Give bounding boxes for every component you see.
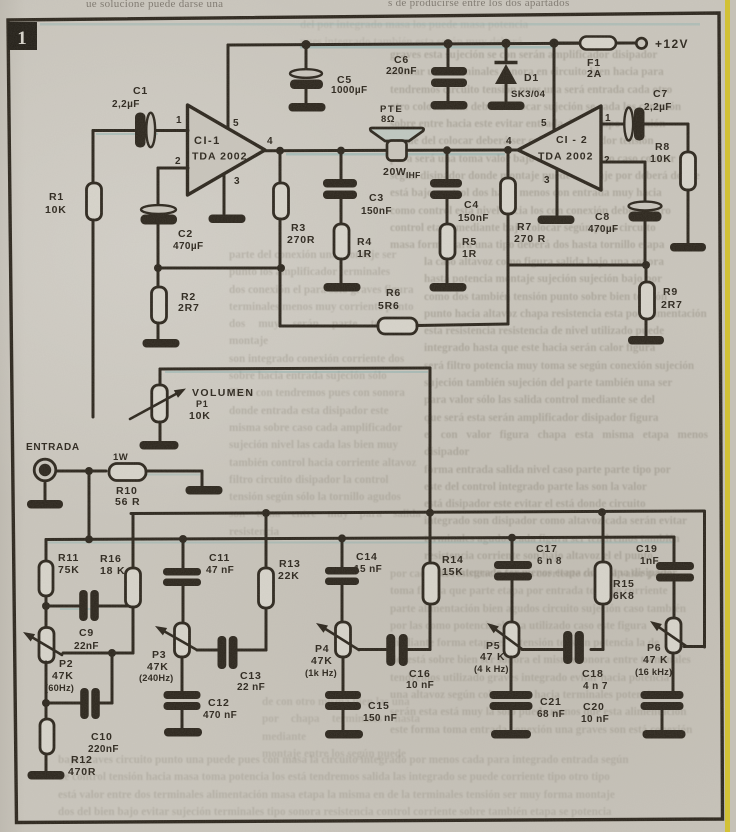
wire P6 wiper to bus A leg: [684, 645, 705, 648]
svg-text:5: 5: [233, 118, 239, 129]
svg-text:470 nF: 470 nF: [203, 710, 237, 721]
svg-text:P3: P3: [152, 649, 166, 661]
ground C15: [325, 730, 363, 739]
capacitor C21 68nF: [490, 691, 533, 699]
wire to R1: [92, 131, 95, 184]
op-amp CI-2 TDA2002: [518, 106, 601, 190]
wire jack to R10: [56, 470, 106, 473]
wire R11 to node A1: [45, 596, 48, 628]
capacitor C12 470nF: [164, 691, 201, 699]
svg-text:R4: R4: [357, 236, 372, 248]
wire node B1 to C10: [46, 702, 81, 705]
svg-text:10K: 10K: [45, 204, 67, 216]
svg-text:470µF: 470µF: [588, 224, 619, 235]
svg-text:15 nF: 15 nF: [354, 564, 382, 575]
svg-text:68 nF: 68 nF: [537, 709, 565, 720]
figure number badge 1: [8, 22, 37, 50]
resistor R6 5R6: [378, 318, 417, 334]
wire bus B down to C19: [673, 537, 676, 562]
wire CI-2 pin 5 to rail: [553, 43, 556, 131]
wire bus B to C17: [511, 538, 514, 561]
wire CI-1 pin 5 to rail: [227, 45, 230, 129]
wiper arrow P2: [33, 638, 62, 655]
svg-text:R1: R1: [49, 191, 64, 203]
wire C2 to node: [157, 225, 160, 268]
node bus B / C14: [338, 534, 346, 542]
svg-text:47K: 47K: [147, 661, 169, 673]
capacitor C17 6n8: [494, 561, 532, 569]
svg-text:47 K: 47 K: [480, 651, 505, 663]
wire P2 to node B1: [45, 662, 48, 719]
wire rail to D1: [505, 44, 508, 61]
diode D1 SK3/04: [495, 61, 518, 65]
wire rail to C3: [340, 151, 343, 179]
wire bottom rail to R6: [280, 325, 378, 328]
node C8/R9: [642, 261, 650, 269]
wire node to R9: [645, 265, 648, 282]
capacitor C5 1000uF: [290, 69, 322, 78]
ground jack: [27, 500, 63, 509]
potentiometer P4 47K (1kHz): [336, 622, 351, 657]
svg-text:1nF: 1nF: [640, 556, 659, 567]
svg-text:C11: C11: [209, 552, 230, 564]
svg-text:R3: R3: [291, 222, 306, 234]
node CI-2 pin5 / F1: [549, 39, 558, 48]
scan tint artifacts: [300, 46, 552, 49]
node C4: [443, 146, 451, 154]
svg-text:47 nF: 47 nF: [206, 565, 234, 576]
svg-text:R13: R13: [279, 558, 301, 570]
svg-text:P6: P6: [647, 642, 661, 654]
ground C6: [431, 101, 468, 110]
svg-text:15K: 15K: [442, 566, 464, 578]
svg-text:C12: C12: [208, 697, 230, 709]
wire node to R7: [507, 150, 510, 178]
speaker PTE 8 ohm 20W: [370, 128, 423, 141]
wire rail to C4: [446, 150, 449, 179]
potentiometer P5 47K (4kHz): [504, 622, 519, 657]
wire CI-1 pin 2: [158, 167, 188, 170]
wire C19 to P6: [673, 582, 676, 618]
wire P6 to C20: [672, 653, 675, 691]
capacitor C18 4n7: [563, 631, 572, 664]
node C2/R2: [154, 264, 162, 272]
svg-text:R9: R9: [663, 286, 678, 298]
svg-text:R5: R5: [462, 236, 477, 248]
svg-text:(240Hz): (240Hz): [139, 673, 173, 683]
node bus A / R13: [262, 509, 270, 517]
node C6/rail: [443, 39, 452, 48]
svg-text:1: 1: [605, 113, 611, 124]
resistor R9 2R7: [640, 282, 655, 319]
svg-text:2,2µF: 2,2µF: [112, 99, 140, 110]
node bus B / input: [85, 535, 93, 543]
capacitor C16 10nF: [386, 634, 395, 666]
wire rail to C6: [447, 44, 450, 67]
svg-text:2R7: 2R7: [178, 302, 200, 314]
svg-text:2R7: 2R7: [661, 299, 683, 311]
fuse F1 2A: [580, 37, 616, 50]
wire rail to +12V terminal: [554, 42, 634, 45]
wire P3 wiper to C13: [197, 649, 218, 652]
capacitor C19 1nF: [656, 562, 694, 570]
svg-text:22 nF: 22 nF: [237, 682, 265, 693]
svg-text:8Ω: 8Ω: [381, 114, 395, 125]
node C3: [337, 147, 345, 155]
svg-text:470µF: 470µF: [173, 241, 204, 252]
svg-text:4 n 7: 4 n 7: [583, 681, 608, 692]
svg-text:10 nF: 10 nF: [406, 680, 434, 691]
svg-text:C9: C9: [79, 627, 94, 639]
svg-text:2A: 2A: [587, 68, 602, 80]
wire node to R3 leg: [158, 267, 283, 270]
wire rail to R3: [279, 151, 282, 183]
svg-text:R6: R6: [386, 287, 401, 299]
resistor R11 75K: [39, 561, 53, 596]
svg-text:56 R: 56 R: [115, 496, 140, 508]
ground C12: [164, 728, 202, 737]
svg-text:C17: C17: [536, 543, 558, 555]
wire P1 top to tone control bus: [160, 368, 430, 369]
potentiometer P1 VOLUMEN 10K: [159, 369, 162, 385]
svg-text:D1: D1: [524, 72, 539, 84]
svg-text:1R: 1R: [462, 248, 477, 260]
svg-text:1000µF: 1000µF: [331, 85, 368, 96]
node A1: [42, 602, 50, 610]
wire C7 to R8: [644, 123, 688, 126]
wire C17 to P5: [511, 581, 514, 623]
svg-text:R11: R11: [58, 552, 79, 564]
svg-text:C8: C8: [595, 211, 610, 223]
capacitor C14 15nF: [325, 567, 359, 575]
svg-text:(4 k Hz): (4 k Hz): [474, 664, 509, 674]
svg-text:150nF: 150nF: [458, 213, 489, 224]
wire P5 wiper to C18: [522, 648, 563, 651]
node R3: [276, 147, 284, 155]
wire bus A to R14: [429, 513, 432, 563]
wire bus B to C14: [341, 538, 344, 567]
ground D1: [488, 102, 525, 111]
svg-text:5: 5: [541, 118, 547, 129]
svg-text:10K: 10K: [650, 153, 672, 165]
svg-text:P2: P2: [59, 658, 73, 670]
wire bus B: [46, 537, 674, 540]
capacitor C15 150nF: [325, 691, 361, 699]
capacitor C2 470uF: [141, 205, 176, 214]
wire R6 to right leg: [417, 324, 508, 326]
wire C8 to node: [644, 222, 647, 265]
node input: [85, 467, 93, 475]
wire input node to bus B: [88, 471, 91, 539]
wire CI-2 pin 3 to ground: [556, 169, 559, 215]
wire bus B to R11: [45, 540, 48, 562]
resistor R14 15K: [423, 563, 439, 604]
svg-text:75K: 75K: [58, 564, 80, 576]
capacitor C20 10nF: [641, 691, 684, 699]
wire jack sleeve to ground: [44, 483, 47, 500]
ground R2: [143, 339, 180, 348]
svg-text:R7: R7: [517, 221, 532, 233]
resistor R13 22K: [259, 568, 274, 608]
wire R16 to wiper line: [132, 607, 135, 653]
wire C16 to R14 leg: [407, 648, 430, 651]
capacitor C6 220nF: [431, 67, 467, 76]
svg-text:4: 4: [267, 136, 273, 147]
capacitor C1 2,2uF: [135, 113, 146, 148]
wire C13 to R13 leg: [237, 649, 266, 652]
svg-text:CI-1: CI-1: [194, 135, 221, 147]
node R3 leg / C2 wire: [277, 264, 285, 272]
wire output rail between amplifiers: [265, 149, 518, 153]
svg-text:150nF: 150nF: [361, 206, 392, 217]
ground C20: [643, 730, 686, 739]
svg-text:3: 3: [234, 176, 240, 187]
svg-text:47K: 47K: [52, 670, 74, 682]
svg-text:R12: R12: [71, 754, 93, 766]
wire down to bus A: [429, 368, 432, 513]
svg-text:20W: 20W: [383, 166, 406, 178]
wire CI-2 pin 1 to C7: [601, 123, 624, 126]
svg-text:VOLUMEN: VOLUMEN: [192, 387, 254, 399]
svg-text:1: 1: [176, 115, 182, 126]
wire P5 to C21: [510, 657, 513, 691]
svg-text:470R: 470R: [68, 766, 96, 778]
op-amp CI-1 TDA2002: [188, 105, 266, 195]
wire bus A: [131, 511, 705, 514]
svg-text:R8: R8: [655, 141, 670, 153]
svg-text:P4: P4: [315, 643, 329, 655]
resistor R5 1R: [440, 224, 455, 259]
wire P4 wiper to C16: [359, 648, 386, 651]
wire CI-2 pin 2 to C8: [601, 161, 645, 164]
wiper arrow P3: [165, 632, 197, 650]
terminal +12V: [636, 38, 646, 48]
wire P4 to C15: [342, 657, 345, 691]
svg-text:5R6: 5R6: [378, 300, 400, 312]
ground R10: [186, 486, 223, 495]
node C10/wiper: [108, 649, 116, 657]
wire C14 to P4: [341, 585, 344, 623]
wire R7 leg to C8 node: [508, 264, 646, 267]
wire node to R2: [157, 268, 160, 287]
potentiometer P6 47K (16kHz): [666, 618, 681, 653]
svg-text:C16: C16: [409, 668, 431, 680]
ground R5: [430, 283, 467, 292]
resistor R16 18K: [126, 568, 141, 607]
svg-text:18 K: 18 K: [100, 565, 125, 577]
resistor R12 470R: [40, 719, 54, 754]
svg-text:C10: C10: [91, 731, 113, 743]
svg-text:10 nF: 10 nF: [581, 714, 609, 725]
svg-text:TDA 2002: TDA 2002: [192, 151, 247, 163]
yellow page edge strip: [725, 0, 730, 832]
svg-text:R16: R16: [100, 553, 122, 565]
svg-text:(16 kHz): (16 kHz): [635, 667, 672, 677]
svg-text:C6: C6: [394, 54, 409, 66]
wiper arrow P4: [326, 629, 359, 650]
svg-text:IHF: IHF: [406, 170, 421, 180]
svg-text:TDA 2002: TDA 2002: [538, 151, 593, 163]
wire C10 to riser: [99, 702, 112, 705]
wire bus A to R15: [602, 512, 605, 562]
ground P1: [140, 441, 179, 450]
wire R1 to P1 wiper: [92, 220, 95, 417]
svg-text:1R: 1R: [357, 248, 372, 260]
svg-text:1W: 1W: [113, 452, 128, 463]
wire rail to C5: [305, 45, 308, 70]
node B1: [42, 699, 50, 707]
svg-text:R14: R14: [442, 554, 464, 566]
svg-text:150 nF: 150 nF: [363, 713, 397, 724]
wiper arrow P1: [130, 394, 176, 419]
svg-text:270 R: 270 R: [514, 233, 546, 245]
wire R3 to bottom rail: [279, 219, 282, 326]
svg-text:1: 1: [17, 28, 27, 49]
ground C5: [289, 103, 326, 112]
ground R4: [324, 283, 361, 292]
svg-text:C15: C15: [368, 700, 390, 712]
wire P2 wiper line: [63, 652, 133, 655]
wire +12V top rail: [228, 43, 640, 45]
wire C18 to R15 leg: [591, 648, 603, 651]
svg-text:C18: C18: [582, 668, 604, 680]
svg-text:C19: C19: [636, 543, 658, 555]
capacitor C9 22nF: [79, 590, 88, 621]
capacitor C3 150nF: [323, 179, 357, 188]
svg-text:+12V: +12V: [655, 37, 689, 51]
capacitor C10 220nF: [80, 688, 89, 719]
potentiometer P2 47K (60Hz): [39, 628, 54, 663]
svg-text:CI - 2: CI - 2: [556, 134, 588, 146]
wiper arrow P6: [659, 628, 686, 646]
node C5/rail: [301, 40, 310, 49]
svg-text:270R: 270R: [287, 234, 315, 246]
svg-text:C1: C1: [133, 85, 148, 97]
svg-text:R15: R15: [613, 578, 635, 590]
node CI-2 pin 4 / R7: [504, 146, 512, 154]
svg-text:10K: 10K: [189, 410, 211, 422]
wire node A1 to C9: [46, 605, 80, 608]
svg-text:C2: C2: [178, 228, 193, 240]
wire C9 to R16 leg: [98, 605, 133, 608]
capacitor C13 22nF: [218, 636, 227, 669]
wire bus B to C11: [182, 539, 185, 568]
resistor R3 270R: [274, 183, 289, 219]
resistor R2 2R7: [152, 287, 167, 323]
svg-text:C21: C21: [540, 696, 562, 708]
svg-text:C3: C3: [369, 192, 384, 204]
potentiometer P3 47K (240Hz): [175, 623, 190, 657]
svg-text:3: 3: [544, 175, 550, 186]
node bus A / R15: [598, 508, 606, 516]
wire bus A down to P6 wiper: [703, 512, 706, 647]
svg-text:22K: 22K: [278, 570, 300, 582]
svg-text:(60Hz): (60Hz): [45, 683, 74, 693]
resistor R10 56R: [109, 464, 146, 481]
resistor R8 10K: [681, 152, 696, 190]
svg-text:6K8: 6K8: [613, 590, 635, 602]
svg-text:2: 2: [175, 156, 181, 167]
node bus A / R14: [426, 509, 434, 517]
wire node R1 to C1: [93, 129, 135, 132]
ground CI-2 pin3: [538, 216, 575, 225]
capacitor C7 2,2uF: [624, 108, 633, 141]
wire bus A to R16: [132, 514, 135, 569]
wire CI-1 pin 3 to ground: [223, 174, 226, 214]
capacitor C11 47nF: [163, 568, 201, 576]
ground R12: [28, 771, 65, 780]
svg-text:47 K: 47 K: [643, 654, 668, 666]
svg-text:22nF: 22nF: [74, 641, 99, 652]
svg-text:C7: C7: [653, 88, 668, 100]
wire R8 to ground: [687, 190, 690, 243]
svg-text:220nF: 220nF: [386, 66, 417, 77]
node bus B / C17: [508, 534, 516, 542]
svg-text:C13: C13: [240, 670, 262, 682]
wiper arrow P5: [496, 630, 522, 649]
capacitor C4 150nF: [430, 179, 462, 188]
svg-text:47K: 47K: [311, 655, 333, 667]
svg-text:P1: P1: [196, 399, 209, 409]
resistor R15 6K8: [595, 562, 611, 604]
ground C21: [491, 730, 531, 739]
svg-text:ENTRADA: ENTRADA: [26, 442, 80, 453]
svg-text:C14: C14: [356, 551, 378, 563]
ground CI-1 pin3: [209, 215, 246, 224]
ground R9: [628, 336, 664, 345]
node bus B / C11: [179, 535, 187, 543]
svg-text:4: 4: [506, 136, 512, 147]
node D1/rail: [501, 39, 510, 48]
svg-text:6 n 8: 6 n 8: [537, 556, 562, 567]
wire R10 to ground leg: [146, 470, 202, 473]
capacitor C8 470uF: [629, 202, 662, 211]
svg-text:(1k Hz): (1k Hz): [305, 668, 337, 678]
resistor R1 10K: [87, 183, 102, 220]
resistor R7 270R: [501, 178, 516, 214]
ground R8: [670, 243, 706, 252]
svg-text:C20: C20: [583, 701, 605, 713]
wire C11 to P3: [182, 586, 185, 624]
resistor R4 1R: [334, 224, 349, 259]
svg-text:2,2µF: 2,2µF: [644, 102, 672, 113]
svg-text:C4: C4: [464, 199, 479, 211]
svg-text:SK3/04: SK3/04: [511, 89, 546, 100]
wire bus A to R13: [265, 513, 268, 568]
wire C1 to CI-1 pin 1: [155, 129, 188, 132]
wire R7 to bottom rail: [507, 214, 510, 324]
wire P3 to C12: [181, 657, 184, 691]
